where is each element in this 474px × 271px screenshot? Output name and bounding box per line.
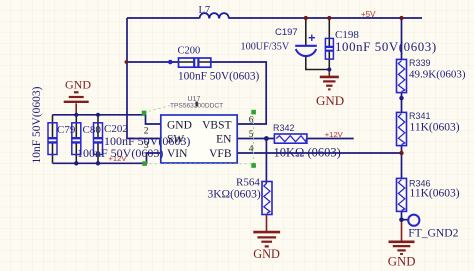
node gnd rail cap3 bbox=[96, 113, 100, 117]
wire EN to R342 bbox=[237, 138, 274, 140]
wire R341 to VFB junction bbox=[401, 146, 403, 179]
svg-text:3: 3 bbox=[144, 141, 149, 151]
lead C80 bbox=[75, 115, 77, 164]
capacitor C197 (polarized) bbox=[295, 35, 317, 57]
svg-text:2: 2 bbox=[144, 127, 149, 137]
svg-text:SW: SW bbox=[167, 134, 184, 146]
resistor R564 bbox=[262, 182, 272, 215]
node R346/FT_GND2 bbox=[399, 217, 404, 222]
svg-text:10KΩ (0603): 10KΩ (0603) bbox=[274, 146, 341, 160]
node C200 blue dot bbox=[168, 60, 173, 65]
wire EN down to R564 bbox=[265, 139, 267, 182]
wire top rail L7->+5V bbox=[229, 17, 423, 19]
svg-text:100nF 50V(0603): 100nF 50V(0603) bbox=[178, 71, 260, 83]
ground GND bottom-right bbox=[389, 220, 415, 254]
lead R564 top bbox=[265, 181, 267, 183]
cursor artifact bbox=[196, 102, 198, 107]
capacitor C202 bbox=[94, 123, 103, 155]
node gnd rail cap2 bbox=[74, 113, 78, 117]
svg-text:R341: R341 bbox=[409, 111, 431, 121]
wire C200 right to VBST bbox=[211, 62, 266, 124]
wire VFB long bbox=[237, 152, 401, 154]
lead C197 bbox=[306, 18, 330, 70]
svg-text:C197: C197 bbox=[275, 27, 298, 38]
svg-text:49.9K(0603): 49.9K(0603) bbox=[409, 69, 466, 81]
wire junction to FT_GND2 circle bbox=[402, 219, 409, 221]
wire R339 to R341 bbox=[401, 93, 403, 113]
svg-text:VIN: VIN bbox=[167, 148, 188, 160]
wire top rail SW->L7 bbox=[127, 17, 200, 19]
wire cap bank top rail (GND net) bbox=[53, 115, 161, 124]
svg-text:GND: GND bbox=[167, 120, 192, 132]
FT_GND2 test point circle bbox=[408, 215, 419, 226]
svg-text:GND: GND bbox=[65, 78, 91, 92]
node C197 top bbox=[304, 16, 308, 20]
svg-text:C80: C80 bbox=[83, 124, 102, 136]
lead C200 bbox=[179, 61, 212, 63]
node C198 top bbox=[327, 16, 331, 20]
resistor R341 bbox=[397, 112, 407, 145]
svg-text:R342: R342 bbox=[273, 123, 295, 133]
IC U17 TPS563200DDCT bbox=[161, 115, 237, 163]
svg-text:6: 6 bbox=[249, 116, 254, 126]
svg-text:VFB: VFB bbox=[209, 148, 232, 160]
svg-text:C200: C200 bbox=[178, 46, 201, 57]
lead C202 bbox=[97, 115, 99, 164]
resistor R339 bbox=[397, 59, 407, 92]
ground GND mid (below C197/C198) bbox=[320, 70, 339, 90]
capacitor C198 bbox=[325, 38, 333, 59]
svg-text:L7: L7 bbox=[199, 5, 211, 16]
svg-text:+12V: +12V bbox=[325, 130, 344, 139]
svg-text:5: 5 bbox=[249, 130, 254, 140]
svg-text:GND: GND bbox=[253, 247, 280, 261]
lead C79 bbox=[52, 115, 54, 164]
resistor R342 bbox=[274, 134, 307, 143]
wire R346 to gnd junction bbox=[401, 211, 403, 219]
node 12v rail cap3 bbox=[96, 161, 100, 165]
svg-text:100UF/35V: 100UF/35V bbox=[241, 42, 290, 53]
svg-text:11K(0603): 11K(0603) bbox=[410, 122, 460, 134]
wire left vertical SW net bbox=[127, 18, 161, 139]
svg-text:C79: C79 bbox=[57, 124, 76, 136]
svg-text:10nF 50V(0603): 10nF 50V(0603) bbox=[31, 86, 43, 163]
wire R342 to +12V bbox=[307, 138, 354, 140]
ground GND top-left (inverted) bbox=[64, 92, 89, 115]
wire cap bank bottom rail (+12V net) bbox=[53, 153, 161, 163]
node SW/C200 tee bbox=[125, 60, 129, 64]
svg-text:100nF 50V(0603): 100nF 50V(0603) bbox=[335, 40, 437, 54]
wire C200 left bbox=[127, 61, 179, 63]
node VFB/R341/R346 bbox=[399, 151, 403, 155]
node C197/C198 bottom bbox=[327, 67, 331, 71]
selection artifacts: green dashed box + handles around U17 bbox=[142, 105, 256, 168]
svg-text:+5V: +5V bbox=[361, 10, 376, 19]
node EN tee bbox=[264, 136, 269, 141]
svg-text:R564: R564 bbox=[236, 177, 260, 189]
svg-text:GND: GND bbox=[388, 255, 416, 269]
capacitor C80 bbox=[72, 123, 81, 155]
capacitor C200 bbox=[179, 58, 211, 67]
svg-text:FT_GND2: FT_GND2 bbox=[408, 227, 458, 240]
svg-text:R339: R339 bbox=[409, 58, 431, 68]
node 12v rail cap2 bbox=[74, 161, 78, 165]
svg-text:4: 4 bbox=[249, 145, 254, 155]
resistor R346 bbox=[397, 178, 407, 211]
wire +5V down to R339 bbox=[401, 18, 403, 59]
svg-text:VBST: VBST bbox=[202, 120, 231, 132]
inductor L7 bbox=[200, 13, 229, 18]
node R339/R341 bbox=[399, 96, 403, 100]
svg-text:EN: EN bbox=[216, 134, 232, 146]
svg-text:GND: GND bbox=[316, 93, 344, 108]
svg-text:3KΩ(0603): 3KΩ(0603) bbox=[208, 189, 261, 201]
ground GND below R564 bbox=[253, 215, 280, 247]
svg-text:100nF 50V(0603): 100nF 50V(0603) bbox=[77, 146, 163, 160]
lead C198 bbox=[328, 18, 330, 70]
node +5V/R339 bbox=[399, 16, 403, 20]
svg-text:11K(0603): 11K(0603) bbox=[410, 188, 460, 200]
